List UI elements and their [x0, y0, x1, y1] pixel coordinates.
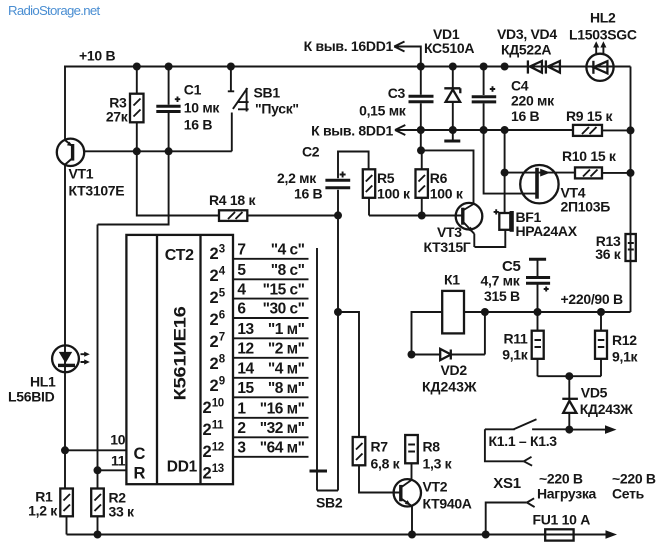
svg-text:СТ2: СТ2 — [165, 247, 194, 264]
svg-text:RadioStorage.net: RadioStorage.net — [8, 3, 100, 18]
IC 2^n output labels — [203, 244, 226, 483]
svg-text:2: 2 — [203, 465, 212, 483]
svg-text:С4: С4 — [511, 78, 529, 94]
svg-text:2П103Б: 2П103Б — [561, 199, 611, 215]
node C4 bottom — [480, 126, 488, 134]
svg-text:5: 5 — [219, 288, 226, 300]
svg-text:+10 В: +10 В — [79, 48, 115, 64]
node VT2 emitter — [408, 531, 416, 539]
svg-text:3: 3 — [237, 440, 246, 457]
svg-text:9,1к: 9,1к — [502, 347, 529, 363]
svg-text:8: 8 — [219, 353, 226, 365]
relay contact K1.1 — [485, 419, 617, 466]
transistor VT1 — [57, 139, 125, 346]
svg-text:2: 2 — [210, 377, 219, 395]
node VD5 top — [565, 372, 573, 380]
node C3 bottom — [417, 126, 425, 134]
relay K1 coil — [442, 272, 464, 334]
wire +10V top rail — [64, 66, 631, 68]
pin row 7 "4 s" — [233, 258, 309, 260]
svg-text:10: 10 — [110, 432, 125, 448]
svg-text:4: 4 — [237, 281, 246, 298]
svg-text:R9 15 к: R9 15 к — [566, 108, 613, 124]
resistor R12 — [595, 312, 639, 376]
svg-text:L56BID: L56BID — [8, 389, 55, 405]
wire relay right rail +220/90 — [464, 311, 631, 313]
node C3 top — [417, 63, 425, 71]
svg-text:"Пуск": "Пуск" — [255, 101, 299, 117]
pin row 13 "1 m" — [233, 337, 309, 339]
pin row 12 "2 m" — [233, 357, 309, 359]
svg-text:КТ315Г: КТ315Г — [424, 239, 471, 255]
wire to R7 — [338, 312, 359, 437]
svg-text:2,2 мк: 2,2 мк — [277, 170, 317, 186]
svg-text:FU1 10 А: FU1 10 А — [533, 512, 591, 528]
pin 11 wire R — [98, 469, 127, 471]
capacitor C1 — [156, 67, 220, 152]
svg-text:НРА24АХ: НРА24АХ — [516, 223, 578, 239]
svg-text:XS1: XS1 — [493, 475, 520, 492]
switch SB1 "Пуск" — [228, 67, 299, 152]
svg-text:7: 7 — [219, 332, 225, 344]
pin row 3 "64 m" — [233, 456, 309, 458]
svg-text:6: 6 — [219, 310, 225, 322]
svg-text:15: 15 — [237, 380, 254, 397]
svg-text:220 мк: 220 мк — [511, 93, 555, 109]
svg-text:9,1к: 9,1к — [612, 349, 639, 365]
pin row 4 "15 s" — [233, 298, 309, 300]
svg-text:VD5: VD5 — [581, 385, 608, 401]
svg-text:R12: R12 — [612, 332, 637, 348]
node VT4 source / BF1 — [501, 169, 509, 177]
svg-text:2: 2 — [237, 420, 245, 437]
node XS1 drop — [482, 531, 490, 539]
svg-text:"2 м": "2 м" — [268, 341, 305, 358]
IC output rows — [233, 242, 309, 457]
node R6 bottom — [418, 212, 426, 220]
IC DD1 K561IE16 counter — [126, 235, 233, 484]
svg-text:К1.1 – К1.3: К1.1 – К1.3 — [489, 433, 558, 449]
resistor R2 — [91, 489, 135, 535]
svg-text:R5: R5 — [377, 170, 395, 186]
wire VT1 base — [84, 150, 232, 152]
wire ground rail — [395, 129, 573, 131]
svg-text:VT1: VT1 — [69, 166, 94, 182]
svg-text:+220/90 В: +220/90 В — [561, 291, 623, 307]
node K1.1 right contact — [565, 426, 573, 434]
pin row 15 "8 m" — [233, 396, 309, 398]
svg-text:100 к: 100 к — [430, 186, 464, 202]
svg-text:R7: R7 — [371, 439, 389, 455]
pin row 5 "8 s" — [233, 278, 309, 280]
svg-text:11: 11 — [111, 453, 126, 469]
resistor R10 — [562, 148, 631, 178]
svg-text:HL2: HL2 — [590, 10, 616, 26]
node C2 bottom / R4 — [334, 211, 342, 219]
node C1 top — [165, 63, 173, 71]
node pin11 / R2 column — [94, 466, 102, 474]
switch SB2 selector bus — [310, 215, 343, 510]
pin row 14 "4 m" — [233, 377, 309, 379]
svg-text:С1: С1 — [184, 82, 202, 98]
svg-text:R: R — [134, 465, 146, 483]
svg-text:~220 В: ~220 В — [539, 471, 583, 487]
svg-text:2: 2 — [210, 355, 219, 373]
node C4 top — [480, 63, 488, 71]
svg-text:Сеть: Сеть — [612, 486, 645, 502]
resistor R5 — [363, 169, 411, 215]
resistor R7 — [353, 437, 401, 493]
diode VD4 — [546, 60, 560, 73]
svg-text:"32 м": "32 м" — [260, 420, 305, 437]
node R12 top — [597, 308, 605, 316]
node BF1 riser top — [501, 63, 509, 71]
connector XS1 — [486, 475, 535, 535]
wire relay left to VD2 anode — [412, 312, 443, 355]
node BF1 riser gnd — [501, 126, 509, 134]
svg-text:13: 13 — [237, 321, 254, 338]
svg-text:C: C — [134, 445, 146, 463]
svg-text:"15 с": "15 с" — [263, 281, 305, 298]
pin 10 wire C — [65, 449, 126, 451]
node VD2 cathode riser — [481, 308, 489, 316]
svg-text:2: 2 — [210, 311, 219, 329]
svg-text:К выв. 16DD1: К выв. 16DD1 — [304, 38, 394, 54]
node VD1 bottom — [449, 126, 457, 134]
svg-text:16 В: 16 В — [184, 117, 213, 133]
svg-text:R10 15 к: R10 15 к — [562, 148, 617, 164]
svg-text:2: 2 — [210, 289, 219, 307]
resistor R6 — [416, 130, 464, 216]
LED HL1 — [8, 345, 90, 488]
LED HL2 — [569, 10, 637, 81]
svg-text:VD2: VD2 — [441, 362, 468, 378]
svg-text:КД522А: КД522А — [501, 42, 551, 58]
diode VD2 — [412, 312, 485, 395]
node C5 / R11 — [534, 308, 542, 316]
svg-text:12: 12 — [212, 441, 224, 453]
svg-text:2: 2 — [203, 421, 212, 439]
svg-text:33 к: 33 к — [109, 504, 136, 520]
svg-text:SB1: SB1 — [254, 85, 281, 101]
svg-text:КД243Ж: КД243Ж — [422, 379, 477, 395]
wire R4 to C2 node — [247, 215, 338, 217]
svg-text:13: 13 — [212, 463, 224, 475]
node R9 right — [627, 126, 635, 134]
wire R6 node to VT3 collector — [421, 150, 474, 204]
svg-text:"64 м": "64 м" — [260, 440, 305, 457]
pin row 1 "16 m" — [233, 417, 309, 419]
svg-text:"30 с": "30 с" — [263, 301, 305, 318]
svg-text:1,3 к: 1,3 к — [423, 456, 453, 472]
svg-text:2: 2 — [210, 333, 219, 351]
svg-text:L1503SGC: L1503SGC — [569, 27, 637, 43]
buzzer BF1 — [475, 130, 578, 247]
svg-text:SB2: SB2 — [316, 495, 343, 511]
node R2 bottom — [94, 531, 102, 539]
transistor VT3 — [424, 203, 483, 255]
wire R5/R6 bottoms to VT3 base — [369, 215, 463, 217]
svg-text:"16 м": "16 м" — [260, 401, 305, 418]
node VD1 top — [449, 63, 457, 71]
svg-text:2: 2 — [203, 443, 212, 461]
svg-text:27к: 27к — [106, 109, 129, 125]
svg-text:36 к: 36 к — [595, 246, 622, 262]
node R10 right — [627, 169, 635, 177]
svg-text:КС510А: КС510А — [424, 40, 474, 56]
capacitor C3 — [359, 67, 433, 131]
wire C1 node down then left to R2 column — [98, 151, 169, 488]
svg-text:6,8 к: 6,8 к — [371, 456, 401, 472]
node C1 bottom — [165, 147, 173, 155]
svg-text:11: 11 — [212, 419, 224, 431]
diode VD5 — [562, 376, 633, 429]
svg-text:КТ940А: КТ940А — [423, 496, 472, 512]
resistor R9 — [566, 108, 631, 136]
svg-text:2: 2 — [210, 245, 219, 263]
wire arrow to 16DD1 — [394, 47, 421, 67]
wire R3 node down to R4 — [137, 151, 219, 215]
svg-text:К1: К1 — [444, 272, 460, 288]
resistor R11 — [502, 312, 543, 376]
svg-text:HL1: HL1 — [30, 374, 56, 390]
svg-text:"4 м": "4 м" — [268, 361, 305, 378]
pin row 6 "30 s" — [233, 317, 309, 319]
svg-text:КД243Ж: КД243Ж — [580, 401, 633, 417]
svg-text:R8: R8 — [423, 439, 441, 455]
svg-text:3: 3 — [219, 244, 225, 256]
svg-text:0,15 мк: 0,15 мк — [359, 103, 407, 119]
svg-text:5: 5 — [237, 262, 246, 279]
svg-text:4,7 мк: 4,7 мк — [481, 273, 521, 289]
svg-text:2: 2 — [210, 267, 219, 285]
node R3 top — [133, 63, 141, 71]
transistor VT2 — [394, 479, 472, 535]
ground chassis under VD1 — [452, 130, 454, 140]
svg-text:"8 м": "8 м" — [268, 380, 305, 397]
svg-text:"8 с": "8 с" — [271, 262, 305, 279]
node R6 top — [417, 146, 425, 154]
svg-text:1,2 к: 1,2 к — [28, 503, 58, 519]
svg-text:"1 м": "1 м" — [268, 321, 305, 338]
bottom rail wire — [67, 534, 613, 536]
svg-text:VT2: VT2 — [423, 479, 448, 495]
svg-text:R4 18 к: R4 18 к — [209, 192, 256, 208]
svg-text:К выв. 8DD1: К выв. 8DD1 — [311, 122, 393, 138]
svg-text:16 В: 16 В — [294, 186, 323, 202]
zener VD1 — [424, 26, 474, 130]
svg-text:1: 1 — [237, 401, 246, 418]
capacitor C4 — [472, 67, 555, 131]
svg-text:7: 7 — [237, 242, 245, 259]
resistor R8 — [405, 435, 452, 480]
wire left column drop to VT1 — [64, 67, 66, 141]
resistor R4 — [209, 192, 256, 221]
diode VD3 — [528, 60, 542, 73]
svg-text:16 В: 16 В — [511, 108, 540, 124]
svg-text:9: 9 — [219, 375, 225, 387]
node SB1 top — [227, 63, 235, 71]
svg-text:VD3, VD4: VD3, VD4 — [497, 26, 557, 42]
svg-text:10: 10 — [212, 397, 224, 409]
capacitor C5 with chassis top — [481, 258, 551, 312]
node SB2 riser / relay branch — [334, 308, 342, 316]
fuse FU1 — [533, 512, 591, 541]
svg-text:315 В: 315 В — [484, 288, 520, 304]
node VD2 anode / R8 — [408, 351, 416, 359]
resistor R3 — [106, 67, 144, 152]
svg-text:14: 14 — [237, 361, 254, 378]
svg-text:R11: R11 — [503, 331, 528, 347]
svg-text:6: 6 — [237, 301, 246, 318]
svg-text:Нагрузка: Нагрузка — [537, 486, 597, 502]
svg-text:К561ИЕ16: К561ИЕ16 — [172, 306, 190, 400]
svg-text:VT3: VT3 — [437, 224, 462, 240]
svg-text:4: 4 — [219, 266, 226, 278]
svg-text:DD1: DD1 — [167, 459, 198, 476]
wire right rail — [630, 67, 632, 313]
svg-text:КТ3107Е: КТ3107Е — [69, 183, 125, 199]
resistor R1 — [28, 489, 73, 535]
node pin10 / HL1 column — [61, 446, 69, 454]
wire R11/R12 bottoms — [538, 375, 602, 377]
capacitor C2 — [277, 144, 369, 216]
svg-text:~220 В: ~220 В — [612, 471, 656, 487]
node R3 bottom — [133, 147, 141, 155]
svg-text:С2: С2 — [302, 144, 320, 160]
fet VT4 — [484, 130, 611, 215]
pin row 2 "32 m" — [233, 436, 309, 438]
svg-text:100 к: 100 к — [377, 186, 411, 202]
svg-text:"4 с": "4 с" — [271, 242, 305, 259]
svg-text:12: 12 — [237, 341, 253, 358]
svg-text:R6: R6 — [430, 170, 448, 186]
svg-text:С3: С3 — [388, 85, 406, 101]
resistor R13 — [595, 233, 636, 262]
svg-text:2: 2 — [203, 399, 212, 417]
svg-text:10 мк: 10 мк — [184, 100, 221, 116]
